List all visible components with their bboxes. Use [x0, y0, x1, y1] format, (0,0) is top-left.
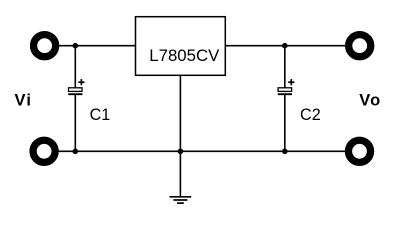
- svg-text:Vi: Vi: [15, 92, 33, 110]
- terminal input bottom (Vi -): [33, 140, 55, 162]
- capacitor C2 bottom plate: [278, 93, 292, 95]
- terminal output top (Vo +): [349, 35, 371, 57]
- capacitor C1 polarity plus: [78, 79, 84, 85]
- terminal input top (Vi +): [34, 35, 56, 57]
- wire regulator ground pin to bottom rail: [179, 75, 181, 151]
- wire C1 lower lead: [74, 94, 76, 151]
- regulator U1 body: [136, 17, 226, 76]
- capacitor C2 polarity plus: [288, 79, 294, 85]
- capacitor C2 top plate: [278, 88, 292, 92]
- wire C2 upper lead: [284, 46, 286, 89]
- wire bottom rail to ground symbol: [179, 151, 181, 197]
- svg-text:L7805CV: L7805CV: [149, 46, 220, 65]
- capacitor C1 top plate: [69, 88, 83, 92]
- junction node: ground on bottom rail: [178, 149, 184, 155]
- junction node: C2 top: [282, 43, 288, 49]
- svg-text:C2: C2: [300, 106, 321, 124]
- svg-text:Vo: Vo: [359, 92, 381, 110]
- svg-text:C1: C1: [90, 106, 111, 124]
- wire top rail right: regulator to output terminal: [225, 45, 352, 47]
- wire top rail left: input terminal to regulator: [52, 45, 136, 47]
- terminal output bottom (Vo -): [348, 140, 370, 162]
- ground: [170, 197, 192, 203]
- junction node: C1 top: [73, 43, 79, 49]
- capacitor C1 bottom plate: [68, 93, 82, 95]
- junction node: C1 bottom: [73, 149, 79, 155]
- wire C2 lower lead: [284, 94, 286, 151]
- wire bottom rail: [52, 150, 352, 152]
- wire C1 upper lead: [74, 46, 76, 89]
- junction node: C2 bottom: [282, 149, 288, 155]
